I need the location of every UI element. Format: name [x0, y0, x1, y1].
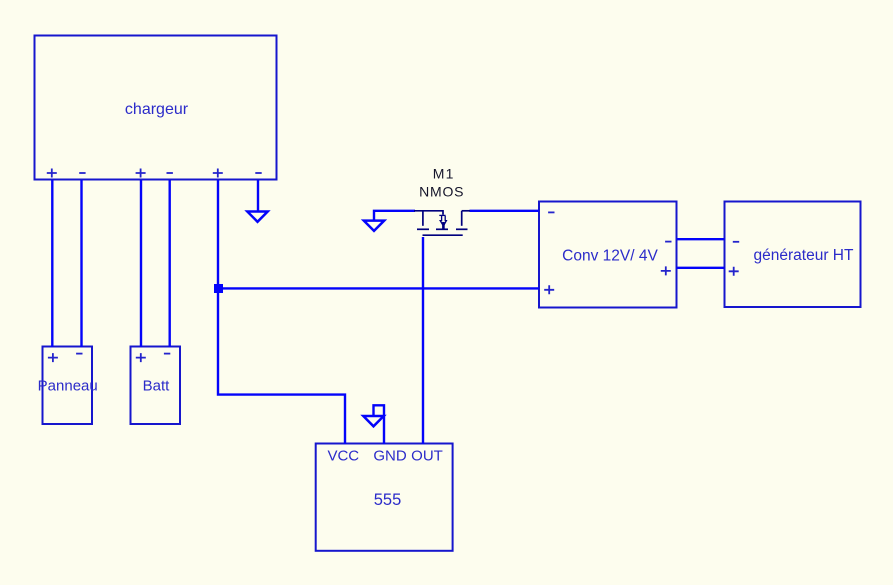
svg-text:Panneau: Panneau: [38, 378, 98, 395]
svg-text:GND: GND: [373, 448, 407, 465]
svg-text:chargeur: chargeur: [125, 101, 189, 118]
svg-text:M1: M1: [433, 165, 455, 181]
svg-text:555: 555: [374, 491, 402, 509]
svg-text:Batt: Batt: [143, 378, 171, 395]
svg-text:OUT: OUT: [411, 448, 443, 465]
svg-text:VCC: VCC: [327, 448, 359, 465]
svg-text:NMOS: NMOS: [419, 183, 464, 199]
svg-text:générateur HT: générateur HT: [754, 247, 854, 264]
svg-text:Conv 12V/ 4V: Conv 12V/ 4V: [562, 248, 658, 265]
